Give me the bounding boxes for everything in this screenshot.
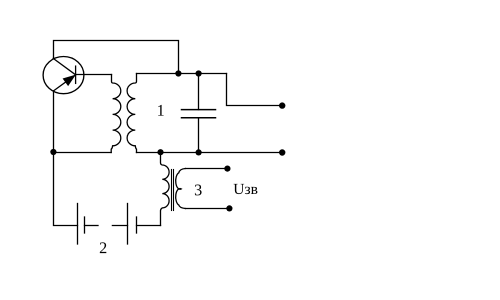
terminal upper output [279, 102, 285, 108]
wire bottom bus left segment [54, 152, 112, 154]
node C junction emitter/battery [50, 149, 56, 155]
transformer T3 left winding [161, 153, 170, 226]
wire base to transformer T1 [76, 74, 112, 76]
transformer T3 core [172, 170, 174, 211]
wire T3 secondary top lead [185, 168, 224, 170]
svg-text:1: 1 [157, 102, 165, 120]
transformer T1 left winding [111, 75, 121, 153]
node B junction capacitor tap [196, 70, 202, 76]
wire battery to transformer T3 [137, 225, 161, 227]
transformer T1 right winding [127, 74, 136, 153]
svg-text:Uзв: Uзв [233, 181, 258, 198]
wire node C down to battery [54, 153, 78, 226]
terminal T3 bottom [226, 205, 232, 211]
battery 2 cell 2 [112, 204, 136, 245]
wire to upper output terminal [227, 74, 280, 106]
transformer T3 right winding [176, 169, 186, 209]
node E junction capacitor bottom [196, 149, 202, 155]
transistor Q1 [43, 57, 84, 94]
battery 2 cell 1 [78, 204, 99, 245]
wire bottom bus right segment [137, 152, 283, 154]
svg-text:2: 2 [99, 239, 107, 257]
wire T1 secondary top rail [137, 73, 227, 75]
node A junction [175, 70, 181, 76]
terminal lower output [279, 149, 285, 155]
wire top rail collector to node A [54, 41, 179, 71]
wire T3 secondary bottom lead [185, 208, 226, 210]
node D junction T3 primary tap [157, 149, 163, 155]
terminal T3 top [224, 166, 230, 172]
svg-text:3: 3 [194, 181, 202, 199]
capacitor C1 [182, 74, 216, 153]
wire emitter down to node C [53, 91, 55, 152]
